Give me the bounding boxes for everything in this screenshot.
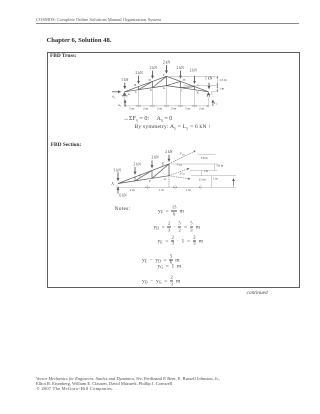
truss dim line arrowheads bbox=[124, 105, 208, 107]
svg-text:2 kN: 2 kN bbox=[163, 60, 171, 64]
web member GH bbox=[167, 81, 181, 85]
section ext H level right bbox=[190, 170, 218, 172]
notes label bbox=[115, 206, 131, 212]
section load 2 kN at D bbox=[151, 161, 153, 168]
section web EF bbox=[152, 164, 169, 178]
chapter title bbox=[47, 37, 112, 44]
section vert dim G to bottom bbox=[211, 176, 213, 188]
svg-text:2 kN: 2 kN bbox=[150, 66, 158, 70]
FBD Section label bbox=[51, 142, 81, 148]
header text bbox=[36, 17, 161, 22]
header underline bbox=[36, 22, 299, 25]
svg-text:E: E bbox=[150, 88, 152, 92]
cut member force F_GI bbox=[169, 176, 190, 179]
svg-text:2 kN: 2 kN bbox=[134, 162, 142, 166]
web member IJ bbox=[181, 87, 195, 88]
svg-text:E: E bbox=[149, 179, 151, 183]
svg-text:Ax: Ax bbox=[112, 95, 116, 100]
section dim tick 2 bbox=[147, 185, 149, 190]
section load 2 kN at F bbox=[168, 155, 170, 162]
svg-text:FGI: FGI bbox=[179, 171, 185, 176]
web member EF bbox=[153, 76, 167, 87]
svg-text:6 kN: 6 kN bbox=[119, 194, 127, 198]
load 2 kN at F bbox=[166, 65, 168, 73]
section dim tick 3 bbox=[174, 185, 176, 190]
web member CD bbox=[139, 81, 153, 89]
svg-text:2 m: 2 m bbox=[143, 107, 148, 111]
note eq 6 bbox=[142, 276, 180, 287]
section vert dim H to G bbox=[201, 171, 203, 176]
reaction arrow Ay bbox=[124, 100, 126, 106]
svg-text:1 kN: 1 kN bbox=[205, 77, 213, 81]
svg-text:2 m: 2 m bbox=[129, 107, 134, 111]
section reaction 6 kN at A bbox=[117, 188, 119, 194]
section web CD bbox=[135, 170, 152, 181]
svg-text:G: G bbox=[164, 177, 166, 181]
right extension line from G level bbox=[183, 85, 218, 87]
section dim tick 4 bbox=[200, 185, 202, 190]
svg-text:B: B bbox=[134, 83, 136, 87]
extension lines under truss bbox=[138, 90, 140, 107]
FBD Truss label bbox=[50, 53, 76, 59]
svg-text:1 m: 1 m bbox=[213, 177, 218, 181]
svg-text:Ay: Ay bbox=[118, 103, 122, 108]
section bottom dimension line bbox=[117, 186, 236, 188]
svg-text:2 m: 2 m bbox=[157, 107, 162, 111]
svg-text:2/3 m: 2/3 m bbox=[199, 177, 206, 181]
load 2 kN at B bbox=[138, 76, 140, 84]
load 2 kN at D bbox=[152, 71, 154, 79]
cut member force F_FH bbox=[169, 151, 196, 164]
svg-text:2 m: 2 m bbox=[199, 107, 204, 111]
footer line 3 bbox=[37, 386, 114, 391]
svg-text:FFH: FFH bbox=[179, 152, 185, 157]
solution box frame bbox=[47, 52, 300, 288]
svg-text:2 kN: 2 kN bbox=[190, 68, 198, 72]
svg-text:1 m: 1 m bbox=[204, 169, 209, 173]
svg-text:C: C bbox=[135, 90, 137, 94]
svg-text:2 kN: 2 kN bbox=[165, 150, 173, 154]
svg-text:F: F bbox=[162, 162, 164, 166]
load 2 kN at J bbox=[194, 76, 196, 84]
note eq 3 bbox=[158, 235, 204, 246]
svg-text:2 kN: 2 kN bbox=[135, 71, 143, 75]
svg-text:H: H bbox=[183, 78, 186, 82]
note eq 2 bbox=[154, 222, 200, 233]
footer line 2 bbox=[36, 381, 172, 386]
equation line 1 bbox=[123, 116, 172, 122]
section dim tick A bbox=[116, 185, 118, 190]
note eq 4 bbox=[142, 254, 180, 265]
roller support at L bbox=[207, 92, 210, 97]
right vertical dimension line bbox=[216, 76, 218, 92]
web member HI bbox=[180, 81, 182, 87]
svg-text:2 kN: 2 kN bbox=[177, 66, 185, 70]
section bottom chord A-C-E-G bbox=[118, 176, 169, 184]
svg-text:G: G bbox=[163, 86, 166, 90]
svg-text:5/6 m: 5/6 m bbox=[201, 156, 208, 160]
svg-text:1 m: 1 m bbox=[185, 188, 190, 192]
note eq 5 bbox=[158, 264, 182, 270]
cut member force F_GH bbox=[169, 168, 189, 175]
reaction arrow Ax bbox=[112, 91, 121, 93]
vertical dashed line at F/G bbox=[168, 165, 170, 187]
section dim line arrowheads bbox=[117, 187, 201, 189]
svg-text:B: B bbox=[139, 174, 141, 178]
truss bottom chord A-C-E-G-I-K-L bbox=[125, 86, 209, 92]
section web DE bbox=[151, 170, 153, 178]
web member DE bbox=[152, 81, 154, 87]
svg-text:1 kN: 1 kN bbox=[114, 169, 122, 173]
load 2 kN at H bbox=[180, 71, 182, 79]
web member BC bbox=[138, 87, 140, 90]
section up arrow right end bbox=[233, 179, 235, 187]
section right extension G level bbox=[191, 175, 236, 177]
section load 2 kN at B bbox=[134, 167, 136, 174]
svg-text:F: F bbox=[163, 73, 165, 77]
svg-text:FGH: FGH bbox=[176, 162, 183, 167]
section ext top small line bbox=[198, 153, 216, 155]
section load 1 kN at A bbox=[117, 172, 119, 181]
load 1 kN at L bbox=[208, 83, 210, 89]
svg-text:I: I bbox=[181, 89, 182, 93]
truss top chord A-B-D-F-H-J-L bbox=[125, 76, 209, 92]
svg-text:A: A bbox=[128, 92, 131, 96]
right dim arrowheads bbox=[217, 76, 219, 92]
section ext F level right bbox=[172, 163, 218, 165]
right extension line from F level bbox=[169, 75, 218, 77]
svg-text:J: J bbox=[197, 83, 199, 87]
svg-text:1 m: 1 m bbox=[159, 188, 164, 192]
svg-text:A: A bbox=[111, 182, 114, 186]
load 1 kN at A bbox=[124, 83, 126, 89]
section web FG bbox=[168, 164, 170, 176]
svg-text:K: K bbox=[197, 91, 200, 95]
svg-text:5/6 m: 5/6 m bbox=[216, 163, 223, 167]
equation line 2 bbox=[135, 124, 212, 130]
svg-text:2 m: 2 m bbox=[130, 188, 135, 192]
right extension line bottom level bbox=[211, 91, 218, 93]
pin support at A bbox=[122, 92, 128, 97]
svg-text:1 kN: 1 kN bbox=[121, 78, 129, 82]
section top chord A-B-D-F bbox=[118, 164, 169, 184]
truss dimension line bbox=[124, 105, 209, 107]
svg-text:2 m: 2 m bbox=[171, 107, 176, 111]
section web BC bbox=[134, 177, 136, 181]
note eq 1 bbox=[158, 206, 184, 217]
section vert dim F to H bbox=[214, 164, 216, 171]
reaction arrow Ly bbox=[212, 100, 214, 106]
svg-text:1.5 m: 1.5 m bbox=[219, 78, 227, 82]
svg-text:1 m: 1 m bbox=[219, 86, 224, 90]
svg-text:2 kN: 2 kN bbox=[151, 156, 159, 160]
svg-text:Ly: Ly bbox=[214, 101, 218, 106]
svg-text:D: D bbox=[148, 78, 151, 82]
footer line 1 bbox=[36, 376, 220, 381]
svg-text:2 m: 2 m bbox=[185, 107, 190, 111]
continued marker bbox=[247, 290, 268, 296]
web member JK bbox=[194, 87, 196, 90]
web member FG bbox=[166, 76, 168, 85]
